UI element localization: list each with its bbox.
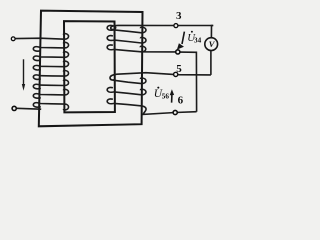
winding 3-4 exit turn continuing as wire to terminal 4 xyxy=(107,45,178,52)
terminal 6 xyxy=(173,110,177,114)
winding 5-6 exit turn curving into wire 6 xyxy=(107,99,196,114)
terminal bottom-left xyxy=(12,106,16,110)
wire bottom-left terminal to winding xyxy=(17,107,42,110)
wire from corner down to voltmeter xyxy=(211,26,213,38)
transformer core outer boundary xyxy=(39,11,143,127)
link wire terminal 4 to terminal 6 xyxy=(180,52,197,112)
voltage arrow U56 xyxy=(171,95,173,103)
primary winding turns xyxy=(33,42,68,98)
svg-text:5: 5 xyxy=(176,63,182,75)
svg-text:34: 34 xyxy=(194,36,202,44)
terminal 3 xyxy=(174,24,178,28)
winding 5-6 middle turns xyxy=(107,78,146,95)
terminal 5 xyxy=(174,72,178,76)
primary winding: top terminal wire with first turn xyxy=(15,34,68,40)
transformer core inner window xyxy=(64,21,115,112)
terminal top-left xyxy=(11,37,15,41)
winding 3-4: wire to terminal 3 with corner curl xyxy=(111,25,214,29)
current arrow at primary side xyxy=(23,59,25,85)
voltage arrow U34 xyxy=(182,32,184,44)
primary winding last turn with end hook xyxy=(33,103,68,110)
winding 5-6: wire 5 with end curl xyxy=(110,73,211,80)
svg-text:6: 6 xyxy=(178,95,184,107)
svg-text:3: 3 xyxy=(176,10,182,22)
wire voltmeter bottom to wire 5 xyxy=(210,51,212,75)
winding 3-4 turns xyxy=(107,25,146,43)
voltmeter xyxy=(205,38,218,51)
svg-text:56: 56 xyxy=(162,93,170,101)
terminal 4 xyxy=(176,50,180,54)
